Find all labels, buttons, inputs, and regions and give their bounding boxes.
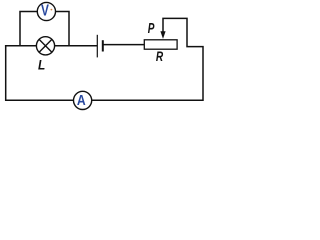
- svg-text:P: P: [148, 20, 155, 36]
- svg-text:L: L: [38, 57, 45, 73]
- svg-text:R: R: [156, 48, 163, 64]
- svg-text:V: V: [41, 1, 49, 19]
- svg-text:A: A: [77, 92, 86, 108]
